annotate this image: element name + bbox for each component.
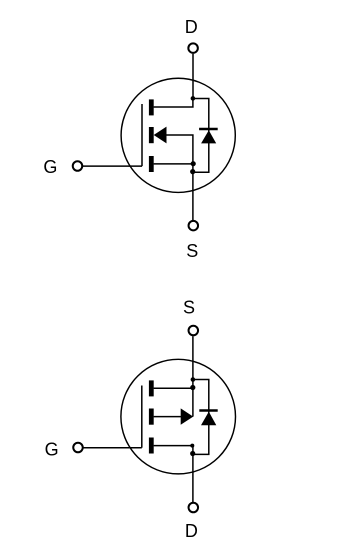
Q1 gate electrode line xyxy=(141,104,143,166)
wire: Q1 body to source xyxy=(167,135,193,164)
wire: Q2 source lead down to body arrow xyxy=(192,336,194,416)
wire: Q2 drain stub xyxy=(154,445,193,447)
svg-text:S: S xyxy=(186,241,198,261)
Q2 source plate bar (top) xyxy=(149,380,154,396)
wire: Q2 drain down to terminal xyxy=(192,446,194,502)
junction dot: Q1 drain / diode node xyxy=(191,96,196,101)
terminal D (Q2) xyxy=(189,503,199,513)
Q2 gate electrode line xyxy=(141,386,143,448)
Q1 body plate bar (middle) xyxy=(149,127,154,143)
Q2 body arrow (points right at body line) xyxy=(181,408,194,424)
junction dot: Q2 source / diode node xyxy=(191,377,196,382)
wire: Q1 body diode branch xyxy=(193,99,209,173)
wire: Q2 gate lead xyxy=(83,447,142,449)
diode D2 cathode bar xyxy=(199,409,217,411)
Q1 drain plate bar xyxy=(149,99,154,115)
junction dot: Q2 drain / stub corner xyxy=(190,444,194,448)
terminal S (Q1) xyxy=(189,221,199,231)
wire: Q2 source stub xyxy=(154,387,193,389)
svg-text:S: S xyxy=(183,298,195,318)
svg-text:G: G xyxy=(45,440,59,460)
Q1 source plate bar xyxy=(149,156,154,172)
junction dot: Q2 source / top plate node xyxy=(190,385,195,390)
terminal D (Q1) xyxy=(188,43,198,53)
wire: Q2 body stub xyxy=(154,416,181,418)
wire: Q1 source down to terminal xyxy=(192,164,194,220)
terminal G (Q1) xyxy=(73,161,83,171)
Q1 body arrow (points left at channel) xyxy=(154,127,167,144)
junction dot: Q1 source / diode node xyxy=(190,169,195,174)
transistor Q1 (N-channel MOSFET) body circle xyxy=(121,78,235,192)
Q2 body plate bar (middle) xyxy=(149,409,154,425)
junction dot: Q1 source / body node xyxy=(191,161,196,166)
diode D1 cathode bar xyxy=(199,128,218,130)
diode D1 anode triangle xyxy=(201,130,216,143)
wire: Q2 body diode branch xyxy=(193,380,209,455)
svg-text:D: D xyxy=(185,521,198,541)
terminal S (Q2) xyxy=(189,326,199,336)
wire: Q1 gate lead xyxy=(83,165,142,167)
Q2 drain plate bar (bottom) xyxy=(149,438,154,454)
terminal G (Q2) xyxy=(73,443,83,453)
transistor Q2 (P-channel MOSFET) body circle xyxy=(121,359,236,474)
junction dot: Q2 drain / diode node xyxy=(190,451,195,456)
svg-text:D: D xyxy=(185,17,198,37)
wire: Q1 source stub xyxy=(154,163,193,165)
svg-text:G: G xyxy=(43,157,57,177)
wire: Q1 drain lead xyxy=(192,54,194,99)
wire: Q1 drain to top plate xyxy=(154,99,193,108)
diode D2 anode triangle xyxy=(201,412,216,426)
